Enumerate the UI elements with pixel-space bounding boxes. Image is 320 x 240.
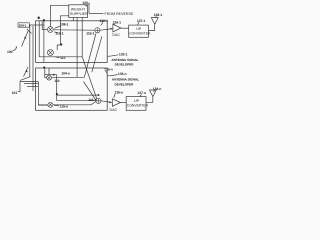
svg-text:100: 100: [7, 50, 13, 54]
svg-text:WEIGHT: WEIGHT: [71, 7, 86, 11]
svg-text:FROM REVERSE: FROM REVERSE: [105, 12, 134, 16]
svg-text:SUPPLIER: SUPPLIER: [70, 12, 88, 16]
svg-text:115: 115: [60, 56, 65, 60]
svg-text:137-1: 137-1: [137, 19, 146, 23]
svg-text:DAC: DAC: [112, 33, 120, 37]
svg-text:DEVELOPER: DEVELOPER: [115, 82, 135, 86]
svg-text:CONVERTER: CONVERTER: [129, 32, 151, 36]
svg-text:138-n: 138-n: [153, 87, 162, 91]
svg-text:110: 110: [54, 79, 59, 83]
svg-text:120: 120: [82, 1, 88, 5]
svg-text:104-1: 104-1: [19, 24, 27, 28]
svg-text:ANTENNA SIGNAL: ANTENNA SIGNAL: [112, 78, 139, 82]
svg-text:104-n: 104-n: [61, 72, 70, 76]
svg-text:115-1: 115-1: [55, 32, 63, 36]
svg-text:116-1: 116-1: [86, 32, 94, 36]
svg-text:108-1: 108-1: [60, 23, 69, 27]
svg-text:132-1: 132-1: [100, 19, 109, 23]
svg-text:135-n: 135-n: [104, 68, 113, 72]
svg-text:137-n: 137-n: [137, 91, 146, 95]
svg-text:138-1: 138-1: [154, 13, 163, 17]
svg-text:133-1: 133-1: [119, 52, 128, 56]
svg-text:116-n: 116-n: [88, 98, 96, 102]
svg-text:115-n: 115-n: [60, 105, 68, 109]
svg-text:CONVERTER: CONVERTER: [127, 104, 149, 108]
svg-text:133-n: 133-n: [118, 72, 127, 76]
svg-text:136-1: 136-1: [113, 20, 122, 24]
svg-text:DAC: DAC: [110, 108, 118, 112]
svg-text:UP: UP: [136, 27, 142, 31]
svg-text:ANTENNA SIGNAL: ANTENNA SIGNAL: [111, 58, 138, 62]
svg-text:DEVELOPER: DEVELOPER: [115, 62, 135, 66]
svg-text:101: 101: [12, 91, 18, 95]
svg-text:136-n: 136-n: [115, 91, 124, 95]
svg-text:UP: UP: [134, 99, 140, 103]
